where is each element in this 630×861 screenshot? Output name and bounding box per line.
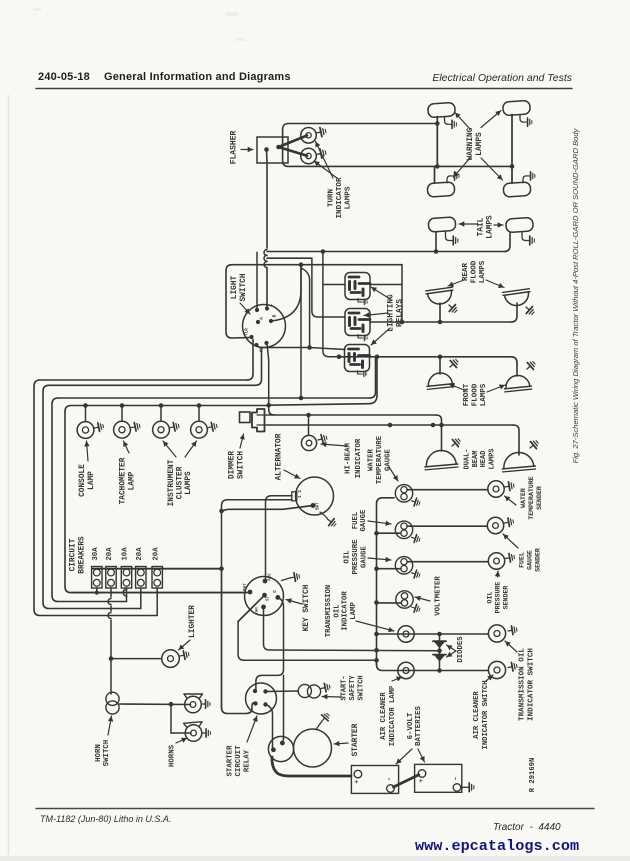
oil pressure gauge label	[344, 539, 391, 575]
horns label	[169, 738, 188, 767]
svg-text:TEMPERATURE: TEMPERATURE	[376, 435, 384, 484]
node breaker1 join	[95, 591, 99, 595]
svg-text:-: -	[386, 777, 394, 781]
svg-text:IGN: IGN	[256, 607, 260, 615]
ground tail lamp right	[522, 232, 534, 245]
warning lamp right-top	[503, 100, 531, 115]
turn indicator lamp lower	[301, 148, 317, 164]
ground battery right	[461, 783, 474, 792]
svg-text:STARTER: STARTER	[227, 745, 235, 777]
ground tail lamp left	[446, 231, 458, 245]
node dimmer feed mid	[266, 403, 271, 408]
warning lamps label	[454, 111, 503, 181]
wire rear flood bus	[370, 303, 517, 322]
wire relay common riser	[323, 252, 345, 357]
lighting relay upper	[345, 273, 370, 305]
svg-text:6-VOLT: 6-VOLT	[407, 712, 415, 739]
wire breaker1 drop	[96, 588, 98, 593]
node fuel gauge tap	[374, 531, 379, 536]
wire main trunk	[222, 569, 256, 714]
footer left	[40, 814, 171, 824]
circuit breaker 20A #5	[152, 547, 162, 588]
wire gauge bus	[377, 498, 395, 665]
svg-text:20A: 20A	[106, 547, 114, 561]
node headlamp bus j1	[388, 423, 393, 428]
node diode top	[437, 632, 442, 637]
instrument cluster lamps label	[163, 441, 197, 506]
wire light switch TLR loop	[226, 265, 249, 338]
console lamp	[77, 422, 94, 439]
svg-text:INDICATOR: INDICATOR	[355, 438, 363, 478]
svg-text:Fig. 27-Schematic Wiring Diagr: Fig. 27-Schematic Wiring Diagram of Trac…	[571, 127, 580, 463]
wire headlamp bus upper	[266, 415, 442, 451]
wire lighter	[111, 658, 161, 660]
wire light switch top riser A	[256, 252, 258, 310]
svg-text:RELAY: RELAY	[243, 749, 251, 772]
lighting relay lower	[345, 345, 370, 377]
wire relay left vertical	[300, 265, 302, 398]
alternator label	[276, 433, 301, 480]
svg-text:DIODES: DIODES	[457, 636, 465, 663]
svg-text:LIGHT: LIGHT	[231, 275, 239, 299]
starter circuit relay	[246, 683, 277, 714]
fuel gauge sender label	[503, 534, 542, 572]
node voltmeter tap	[374, 600, 379, 605]
svg-text:TLR: TLR	[246, 328, 250, 336]
svg-text:LAMPS: LAMPS	[185, 471, 193, 495]
node trans lamp tap	[374, 632, 379, 637]
rear flood lamps label	[448, 260, 504, 288]
wire tail lamp stems	[436, 232, 510, 252]
fuel gauge	[395, 521, 412, 538]
wire rear flood left stem	[439, 303, 441, 322]
svg-text:30A: 30A	[92, 547, 100, 561]
svg-text:-: -	[453, 776, 461, 780]
horn upper	[184, 694, 203, 713]
svg-text:SWITCH: SWITCH	[240, 273, 248, 301]
circuit breaker 20A #2	[106, 547, 116, 588]
svg-text:TAIL: TAIL	[478, 217, 486, 236]
wire water gauge to sender	[407, 489, 488, 491]
svg-text:BAT: BAT	[317, 502, 321, 510]
svg-text:FLOOD: FLOOD	[472, 383, 480, 406]
node lighter tap	[109, 656, 114, 661]
light switch label	[231, 273, 250, 314]
turn indicator lamps label	[314, 142, 353, 219]
svg-text:10A: 10A	[122, 547, 130, 561]
svg-text:ACC: ACC	[269, 573, 273, 581]
node breaker bus junction	[219, 566, 224, 571]
starter	[294, 729, 332, 767]
ground water temp sender	[504, 481, 514, 491]
svg-text:20A: 20A	[152, 547, 160, 561]
svg-text:+: +	[418, 779, 425, 783]
wire hi-beam riser	[308, 415, 310, 435]
hi-beam indicator label	[321, 438, 363, 478]
svg-text:LAMPS: LAMPS	[488, 448, 496, 469]
wire battery jumper	[394, 775, 419, 787]
svg-text:SWITCH: SWITCH	[103, 740, 111, 767]
light switch	[243, 303, 286, 352]
air cleaner indicator switch label	[473, 675, 493, 750]
ground fuel gauge	[410, 533, 421, 543]
6-volt battery right	[415, 764, 462, 792]
node diode bottom	[437, 668, 442, 673]
svg-text:LAMP: LAMP	[350, 602, 358, 620]
wire relay right bus	[370, 265, 402, 322]
wire flasher to turn lamps	[267, 136, 308, 164]
ground hi-beam	[317, 433, 328, 444]
wire flasher trunk	[264, 163, 267, 308]
svg-text:TACHOMETER: TACHOMETER	[120, 457, 128, 504]
diodes label	[447, 636, 466, 663]
node turn wire junction	[321, 249, 326, 254]
node lamp stem 3	[159, 403, 164, 408]
key switch label	[286, 584, 311, 631]
part number R 29169N	[529, 758, 537, 793]
starter label	[334, 723, 360, 756]
ground voltmeter	[410, 603, 421, 613]
svg-text:FRONT: FRONT	[463, 383, 471, 406]
svg-text:BREAKERS: BREAKERS	[78, 536, 86, 574]
hi-beam indicator	[301, 435, 316, 450]
transmission oil indicator switch label	[505, 641, 536, 721]
fuel gauge sender	[487, 517, 503, 533]
svg-text:CIRCUIT: CIRCUIT	[70, 538, 78, 571]
wire relay to safety switch	[266, 690, 299, 693]
wire battery cable	[272, 757, 351, 776]
air cleaner indicator switch	[488, 661, 505, 678]
svg-text:ST: ST	[267, 596, 271, 602]
svg-text:GAUGE: GAUGE	[527, 550, 534, 570]
dimmer switch label	[229, 434, 246, 479]
tachometer lamp label	[120, 441, 137, 504]
svg-text:INDICATOR LAMP: INDICATOR LAMP	[389, 685, 397, 746]
ground horn lower	[202, 729, 210, 737]
diode pair	[433, 634, 446, 671]
svg-text:OIL: OIL	[333, 604, 341, 617]
node relay left vertical bottom	[299, 396, 304, 401]
6-volt batteries label	[396, 705, 425, 764]
dual-beam head lamp left	[424, 449, 458, 470]
wire breaker bat run	[71, 592, 247, 594]
node front flood bus right	[375, 355, 380, 360]
svg-text:L: L	[270, 303, 274, 306]
wire relay mid riser	[312, 258, 345, 317]
svg-text:CONSOLE: CONSOLE	[79, 464, 87, 497]
node lamp stem 4	[197, 403, 202, 408]
horn switch label	[95, 716, 113, 766]
ground rear flood left	[446, 302, 459, 315]
dual-beam head lamps label	[464, 448, 497, 469]
wire left bus 2	[43, 348, 262, 609]
wire oil gauge to sender	[407, 561, 488, 563]
svg-text:TRANSMISSION: TRANSMISSION	[325, 585, 333, 638]
svg-text:WATER: WATER	[368, 448, 376, 471]
water temperature sender label	[505, 476, 544, 520]
node hi-beam riser	[306, 413, 311, 418]
oil pressure sender label	[487, 571, 510, 613]
wire fuel gauge tap	[377, 532, 402, 534]
svg-text:HEAD: HEAD	[480, 451, 488, 468]
svg-text:HI-BEAM: HI-BEAM	[344, 443, 352, 474]
svg-text:SENDER: SENDER	[503, 586, 510, 610]
wire breaker top bus	[92, 568, 222, 570]
wire key ST run	[238, 595, 376, 660]
rear flood lamp left	[426, 287, 455, 306]
node front flood left stem	[438, 355, 443, 360]
rear flood lamp right	[503, 289, 532, 308]
6-volt battery left	[351, 766, 398, 794]
svg-text:AIR CLEANER: AIR CLEANER	[380, 692, 388, 740]
node front flood bus left	[337, 355, 342, 360]
lighting relays label	[364, 287, 404, 345]
wire dimmer feed	[267, 344, 275, 416]
node headlamp bus j3	[439, 423, 444, 428]
wire breaker3 drop	[123, 588, 126, 602]
header left	[38, 71, 291, 83]
wire alternator acc feed	[266, 496, 293, 581]
ground dual-beam left	[449, 436, 462, 449]
wire voltmeter tap	[377, 602, 402, 604]
start-safety switch	[298, 684, 320, 698]
svg-text:INSTRUMENT: INSTRUMENT	[168, 459, 176, 506]
wire fuel gauge to sender	[407, 525, 487, 527]
node B riser junction	[299, 262, 304, 267]
wire breaker4 drop	[140, 588, 142, 609]
start-safety switch label	[322, 675, 365, 701]
water temperature sender	[488, 481, 504, 497]
voltmeter	[396, 591, 413, 608]
svg-text:LAMPS: LAMPS	[476, 132, 484, 156]
key switch	[244, 573, 284, 616]
svg-text:SENDER: SENDER	[535, 548, 542, 572]
node relay2 riser corner	[307, 345, 312, 350]
svg-text:SAFETY: SAFETY	[349, 675, 357, 701]
instrument cluster lamp 2	[191, 421, 208, 438]
node air lamp tap	[374, 658, 379, 663]
water temperature gauge label	[368, 435, 398, 484]
air cleaner indicator lamp	[398, 662, 414, 678]
ground oil sender	[505, 553, 515, 563]
svg-text:TRANSMISSION OIL: TRANSMISSION OIL	[518, 648, 526, 721]
ground lighter	[179, 650, 189, 660]
svg-text:TEMPERATURE: TEMPERATURE	[528, 476, 535, 520]
ground trans switch	[507, 625, 517, 635]
circuit breaker 10A #3	[121, 547, 131, 588]
ground rear flood right	[523, 304, 536, 317]
svg-text:20A: 20A	[136, 547, 144, 561]
figure caption	[571, 127, 580, 463]
dual-beam head lamp right	[501, 451, 535, 472]
svg-text:HORNS: HORNS	[169, 744, 177, 767]
tail lamps label	[459, 215, 503, 239]
svg-text:CIRCUIT: CIRCUIT	[235, 745, 243, 777]
svg-text:LIGHTING: LIGHTING	[388, 294, 396, 332]
svg-text:LAMP: LAMP	[88, 471, 96, 490]
svg-text:BAT: BAT	[244, 583, 248, 591]
wire left bus outer	[34, 340, 253, 616]
ground tachometer lamp	[130, 422, 140, 432]
circuit breakers label	[70, 536, 87, 574]
node rear flood left stem	[438, 320, 443, 325]
svg-text:INDICATOR SWITCH: INDICATOR SWITCH	[528, 648, 536, 721]
wire breaker5 drop	[156, 588, 158, 616]
starter solenoid	[268, 736, 293, 761]
alternator	[292, 477, 334, 515]
node relay right bus join	[400, 320, 405, 325]
instrument cluster lamp 1	[153, 421, 170, 438]
svg-text:FUEL: FUEL	[352, 512, 360, 530]
wire left bus 3	[52, 358, 376, 602]
node harness-left bus bottom	[435, 164, 440, 169]
air cleaner indicator lamp label	[380, 677, 402, 747]
turn indicator lamp upper	[301, 128, 317, 144]
svg-text:G: G	[274, 590, 278, 593]
svg-text:PRESSURE: PRESSURE	[352, 539, 360, 575]
svg-text:VOLTMETER: VOLTMETER	[435, 576, 443, 616]
ground oil gauge	[410, 569, 421, 579]
ground starter	[316, 712, 331, 730]
wire switch B riser	[271, 265, 301, 321]
node oil gauge tap	[374, 566, 379, 571]
oil pressure gauge	[395, 557, 412, 574]
lighter label	[179, 605, 198, 650]
svg-text:STARTER: STARTER	[352, 723, 360, 756]
svg-text:FLASHER: FLASHER	[230, 131, 239, 165]
node lamp stem 2	[120, 403, 125, 408]
svg-text:REAR: REAR	[462, 263, 470, 282]
ground instrument lamp 2	[207, 422, 217, 432]
ground warning lamp left-bottom	[447, 172, 459, 183]
front flood lamp right	[503, 374, 531, 392]
svg-text:FLOOD: FLOOD	[471, 260, 479, 283]
ground console lamp	[94, 422, 104, 432]
svg-text:+: +	[353, 780, 360, 784]
svg-text:AIR CLEANER: AIR CLEANER	[473, 691, 481, 739]
warning lamp right-bottom	[503, 182, 531, 197]
svg-text:LAMPS: LAMPS	[345, 186, 353, 209]
tachometer lamp	[114, 421, 131, 438]
wire relay to solenoid	[266, 705, 274, 750]
dimmer switch	[240, 409, 265, 432]
svg-text:B: B	[272, 314, 278, 317]
ground key switch	[282, 572, 300, 582]
wire lamp bus	[65, 406, 269, 593]
node key IGN join	[374, 648, 379, 653]
wire relay feed mid	[267, 257, 312, 259]
ground water temp gauge	[410, 497, 421, 507]
wire solenoid top feed	[282, 675, 283, 743]
warning lamp left-bottom	[427, 182, 455, 197]
node lamp stem 1	[83, 403, 88, 408]
wire alternator bat feed	[222, 500, 293, 569]
svg-text:INDICATOR: INDICATOR	[342, 591, 350, 631]
lighter	[162, 650, 180, 668]
svg-text:ALTERNATOR: ALTERNATOR	[276, 433, 284, 480]
svg-text:A: A	[259, 317, 265, 320]
wire lamp stems	[86, 406, 200, 422]
svg-text:WARNING: WARNING	[467, 127, 475, 160]
wire horn feed	[119, 703, 191, 706]
node diode middle	[437, 649, 442, 654]
wire breaker2 drop	[108, 588, 111, 694]
header rule	[36, 88, 572, 90]
svg-text:BEAM: BEAM	[472, 451, 480, 468]
ground turn lamp lower	[316, 148, 327, 159]
flasher unit	[257, 137, 288, 163]
oil pressure sender	[488, 553, 504, 569]
svg-text:HORN: HORN	[95, 744, 103, 762]
tail lamp left	[428, 217, 456, 232]
wire trans row	[377, 633, 489, 635]
transmission oil indicator lamp	[398, 626, 414, 642]
lighting relay middle	[345, 309, 370, 341]
node harness-left bus top	[435, 121, 440, 126]
fuel gauge label	[352, 509, 391, 532]
svg-text:R 29169N: R 29169N	[529, 758, 537, 793]
ground horn upper	[202, 700, 210, 708]
wire oil gauge tap	[377, 568, 402, 570]
starter circuit relay label	[227, 716, 258, 777]
svg-text:LAMP: LAMP	[128, 471, 136, 490]
circuit breaker 20A #4	[136, 547, 146, 588]
svg-text:LIGHTER: LIGHTER	[189, 605, 197, 638]
ground warning lamp left-top	[445, 117, 457, 129]
svg-text:PRESSURE: PRESSURE	[495, 582, 502, 614]
wire key IGN run	[264, 607, 440, 651]
wire key G run	[256, 597, 284, 690]
wire air row	[377, 662, 489, 671]
voltmeter label	[415, 576, 443, 616]
header right	[432, 72, 572, 84]
water temperature gauge	[395, 485, 412, 502]
wire light switch B feed	[232, 264, 402, 266]
svg-text:TURN: TURN	[327, 188, 335, 207]
svg-text:FUEL: FUEL	[519, 552, 526, 568]
svg-text:OIL: OIL	[344, 550, 352, 563]
svg-text:1 2: 1 2	[297, 490, 303, 499]
svg-text:INDICATOR: INDICATOR	[336, 177, 344, 218]
wire front flood bus	[339, 357, 517, 376]
wire turn circuit	[267, 251, 505, 253]
node tail-left junction	[434, 249, 439, 254]
svg-text:DIMMER: DIMMER	[229, 451, 237, 479]
svg-text:INDICATOR SWITCH: INDICATOR SWITCH	[482, 680, 490, 749]
ground front flood left	[447, 357, 460, 370]
svg-text:GAUGE: GAUGE	[384, 448, 392, 471]
wire lamp bus east	[269, 357, 377, 405]
flasher label	[230, 131, 254, 165]
svg-text:LAMPS: LAMPS	[480, 383, 488, 406]
node warning-right junction	[510, 164, 515, 169]
svg-text:CLUSTER: CLUSTER	[177, 466, 185, 499]
transmission oil indicator lamp label	[325, 585, 394, 638]
front flood lamps label	[449, 383, 505, 406]
front flood lamp left	[426, 372, 454, 390]
wire horn2 feed	[171, 704, 191, 733]
wire harness top	[283, 124, 512, 167]
svg-text:WATER: WATER	[520, 488, 527, 508]
ground turn lamp upper	[316, 127, 327, 138]
ground dual-beam right	[527, 438, 540, 451]
svg-text:SWITCH: SWITCH	[237, 451, 245, 479]
svg-text:OIL: OIL	[487, 592, 494, 604]
svg-text:LAMPS: LAMPS	[486, 215, 494, 239]
console lamp label	[79, 441, 96, 497]
wire alternator bat output	[222, 506, 313, 513]
horn switch	[106, 692, 119, 714]
